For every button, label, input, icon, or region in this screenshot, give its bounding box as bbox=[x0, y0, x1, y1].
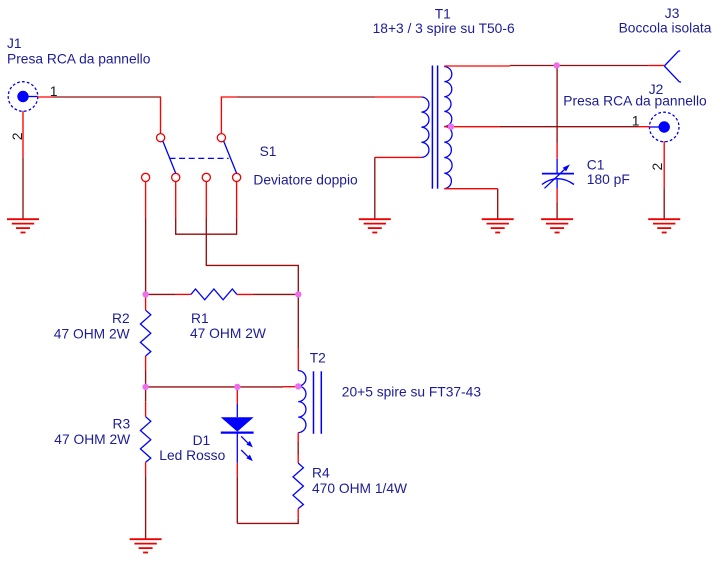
svg-text:2: 2 bbox=[9, 132, 25, 140]
RCA jack J2 bbox=[649, 112, 679, 142]
wire R1 right to node bbox=[253, 293, 299, 295]
T2 core line right bbox=[320, 371, 322, 434]
svg-text:47 OHM 2W: 47 OHM 2W bbox=[190, 326, 266, 341]
T1 secondary top pin stub bbox=[444, 65, 510, 67]
svg-text:Deviatore doppio: Deviatore doppio bbox=[253, 172, 358, 187]
svg-text:47 OHM 2W: 47 OHM 2W bbox=[54, 326, 130, 341]
R4 top pin stub bbox=[297, 455, 299, 463]
junction dot T1 tap bbox=[448, 124, 454, 130]
S1 throw contact 4 circle bbox=[233, 173, 241, 181]
resistor R1 bbox=[191, 289, 237, 300]
svg-text:R1: R1 bbox=[191, 311, 209, 326]
svg-text:C1: C1 bbox=[587, 157, 605, 172]
wire J1 pin2 to ground bbox=[22, 157, 24, 219]
J1 pin 2 lead bbox=[22, 111, 24, 157]
resistor R4 bbox=[293, 463, 303, 509]
D1 cathode pin stub bbox=[236, 463, 238, 476]
D1 anode lead bbox=[236, 404, 238, 418]
ground at T1 primary bbox=[359, 219, 391, 232]
J2 pin 2 lead bbox=[663, 141, 665, 188]
D1 cathode lead bbox=[236, 433, 238, 463]
C1 top plate bbox=[542, 173, 574, 175]
transformer T2 bbox=[298, 371, 321, 434]
junction dot rail2 at D1 bbox=[234, 384, 240, 390]
S1 pole A arm bbox=[163, 141, 176, 173]
S1 throw contact 2 circle bbox=[172, 173, 180, 181]
R3 top pin stub bbox=[145, 401, 147, 417]
junction dot T2 tap bbox=[295, 383, 301, 389]
svg-text:470 OHM 1/4W: 470 OHM 1/4W bbox=[312, 481, 407, 496]
svg-text:R2: R2 bbox=[112, 311, 130, 326]
wire top rail node down to C1 bbox=[556, 66, 558, 144]
T1 core line right bbox=[437, 66, 439, 189]
RCA jack J1 bbox=[8, 82, 38, 112]
svg-text:20+5 spire su FT37-43: 20+5 spire su FT37-43 bbox=[342, 384, 482, 399]
S1 throw contact 1 circle bbox=[142, 173, 150, 181]
svg-text:J3: J3 bbox=[665, 6, 680, 21]
R2 top pin stub bbox=[145, 294, 147, 310]
S1 common A pin stub bbox=[160, 96, 162, 133]
svg-text:T1: T1 bbox=[435, 6, 451, 21]
wire R2 bottom to rail2 bbox=[145, 371, 147, 387]
S1 common B pin stub bbox=[221, 97, 237, 134]
J1 pin 1 lead bbox=[37, 96, 53, 98]
wire T1 tap to J2 bbox=[500, 126, 638, 128]
D1 triangle bbox=[221, 417, 254, 431]
svg-text:18+3 / 3 spire su T50-6: 18+3 / 3 spire su T50-6 bbox=[373, 21, 515, 36]
ground at T1 secondary bbox=[482, 219, 514, 232]
J2 pin 1 lead bbox=[638, 126, 650, 128]
D1 light arrow 1 bbox=[241, 436, 248, 443]
junction dot rail2 left bbox=[142, 384, 148, 390]
wire T1 primary bottom to ground bbox=[374, 157, 376, 219]
wire J1 pin1 to S1 common A bbox=[53, 96, 160, 98]
T2 winding bbox=[298, 371, 306, 433]
T1 primary top pin stub bbox=[375, 96, 421, 98]
R1 left pin stub bbox=[176, 293, 191, 295]
D1 cathode bar bbox=[221, 432, 254, 434]
wire J2 pin2 to ground bbox=[663, 188, 665, 219]
C1 bottom lead bbox=[556, 180, 558, 189]
svg-text:R3: R3 bbox=[113, 416, 131, 431]
junction dot top rail bbox=[554, 62, 560, 68]
svg-text:J1: J1 bbox=[7, 36, 22, 51]
wire S1 throw1 down to node R2 top bbox=[145, 219, 147, 295]
svg-text:R4: R4 bbox=[312, 466, 330, 481]
T1 primary winding bbox=[421, 97, 429, 157]
S1 throw 1 pin stub bbox=[145, 182, 147, 219]
R2 bottom pin stub bbox=[145, 356, 147, 371]
wire node R1 right down to T2 top bbox=[297, 294, 299, 348]
T1 secondary winding upper section bbox=[444, 67, 452, 127]
T2 bottom pin stub bbox=[297, 433, 299, 442]
S1 throw 3 pin stub bbox=[205, 182, 207, 219]
S1 common contact B circle bbox=[217, 134, 225, 142]
wire C1 node to J3 bbox=[557, 65, 649, 67]
S1 coupling dashed link bbox=[170, 157, 229, 159]
wire S1 throw3 down to node R1 right bbox=[206, 219, 298, 295]
R3 top wire from rail2 bbox=[145, 387, 147, 401]
wire S1 throw2 to throw4 link bbox=[176, 219, 237, 235]
S1 throw 4 pin stub bbox=[236, 182, 238, 219]
isolated socket J3 bbox=[664, 51, 681, 82]
C1 adjustment arrow bbox=[545, 168, 567, 188]
T1 secondary tap pin stub bbox=[444, 126, 500, 128]
svg-text:Presa RCA da pannello: Presa RCA da pannello bbox=[563, 94, 707, 109]
T1 core line left bbox=[431, 66, 433, 189]
T1 primary bottom pin stub bbox=[375, 156, 422, 158]
T2 top pin stub bbox=[297, 348, 299, 371]
LED D1 bbox=[221, 404, 254, 463]
wire T1 secondary bottom to ground bbox=[497, 189, 499, 220]
T1 secondary winding lower section bbox=[444, 127, 452, 189]
svg-text:S1: S1 bbox=[260, 144, 277, 159]
J3 pin stub bbox=[649, 65, 664, 67]
R3 bottom pin stub bbox=[145, 462, 147, 476]
C1 top pin stub bbox=[556, 144, 558, 159]
svg-text:47 OHM 2W: 47 OHM 2W bbox=[54, 432, 130, 447]
svg-text:1: 1 bbox=[632, 112, 640, 128]
svg-text:2: 2 bbox=[649, 162, 665, 170]
D1 anode pin stub bbox=[236, 387, 238, 404]
R4 bottom pin stub bbox=[297, 509, 299, 519]
ground at J1 bbox=[7, 219, 39, 232]
variable capacitor C1 bbox=[542, 159, 574, 189]
wire T2 bottom to R4 bbox=[297, 442, 299, 455]
svg-text:T2: T2 bbox=[310, 351, 326, 366]
T2 tap pin stub bbox=[283, 386, 298, 388]
C1 top lead bbox=[556, 159, 558, 174]
T1 secondary bottom pin stub bbox=[444, 188, 497, 190]
wire R3 bottom to ground bbox=[145, 476, 147, 539]
wire D1 cathode down bbox=[236, 476, 238, 523]
wire rail2 bbox=[146, 386, 283, 388]
S1 throw contact 3 circle bbox=[202, 173, 210, 181]
svg-text:180 pF: 180 pF bbox=[587, 172, 630, 187]
wire C1 bottom to ground bbox=[556, 203, 558, 219]
junction dot R1 left node bbox=[142, 291, 148, 297]
resistor R2 bbox=[140, 310, 150, 356]
S1 common contact A circle bbox=[157, 134, 165, 142]
wire T1 secondary top to C1 node bbox=[510, 65, 557, 67]
wire node to R1 left bbox=[146, 293, 176, 295]
ground at J2 bbox=[648, 219, 680, 232]
svg-text:Led Rosso: Led Rosso bbox=[159, 448, 225, 463]
svg-text:Presa RCA da pannello: Presa RCA da pannello bbox=[7, 51, 151, 66]
S1 pole B arm bbox=[224, 141, 237, 173]
ground at R3 bbox=[130, 539, 162, 552]
C1 bottom pin stub bbox=[556, 189, 558, 204]
R1 right pin stub bbox=[237, 293, 253, 295]
S1 throw 2 pin stub bbox=[175, 182, 177, 219]
wire R4 bottom to D1 bottom bbox=[237, 518, 298, 523]
ground at C1 bbox=[541, 219, 573, 232]
transformer T1 bbox=[421, 66, 452, 189]
resistor R3 bbox=[140, 417, 150, 463]
C1 bottom curved plate bbox=[542, 179, 574, 185]
wire S1 common B to T1 primary top bbox=[237, 96, 375, 98]
junction dot R1 right node bbox=[295, 291, 301, 297]
svg-text:D1: D1 bbox=[193, 433, 211, 448]
svg-text:Boccola isolata: Boccola isolata bbox=[619, 20, 712, 35]
D1 light arrow 2 bbox=[241, 450, 248, 457]
switch S1 bbox=[142, 134, 241, 182]
T2 core line left bbox=[313, 371, 315, 434]
